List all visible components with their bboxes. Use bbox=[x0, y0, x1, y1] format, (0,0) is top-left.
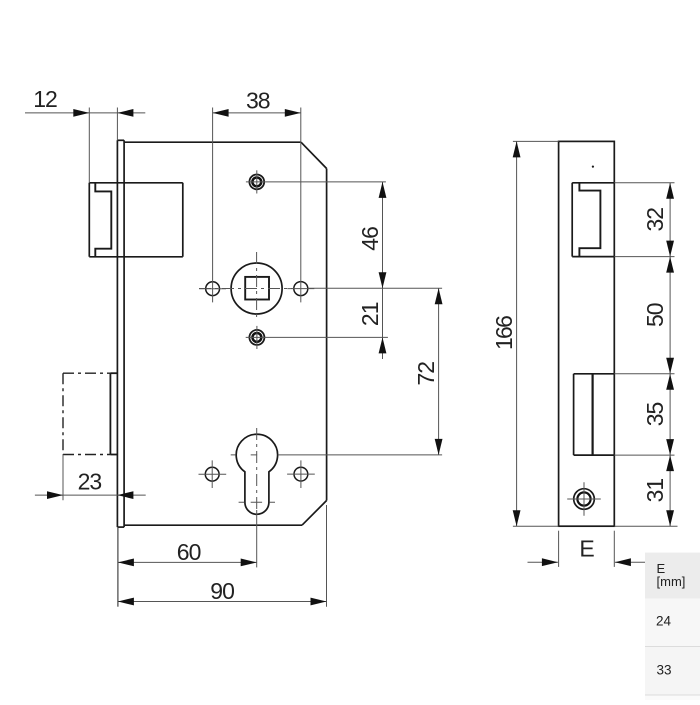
case top edge bbox=[124, 141, 301, 143]
faceplate outline bbox=[559, 141, 615, 526]
dimension 166 extension top bbox=[513, 140, 559, 142]
lower screw hole outer bbox=[249, 330, 264, 345]
dimension 23 line bbox=[35, 494, 146, 496]
dimension E arrow left bbox=[542, 558, 558, 566]
dimension 31 arrow top bbox=[666, 455, 674, 471]
dimension 50 arrow bottom bbox=[666, 358, 674, 374]
lower screw hole centerline vertical bbox=[256, 326, 258, 349]
deadbolt cutout bottom bbox=[574, 454, 615, 456]
latch bolt bracket bbox=[95, 183, 111, 257]
svg-text:46: 46 bbox=[357, 227, 383, 251]
latch block right edge bbox=[182, 183, 184, 257]
dimension 38 extension left bbox=[212, 108, 214, 303]
top screw hole inner bbox=[252, 177, 261, 186]
table row border 2 bbox=[645, 694, 700, 696]
dimension 72 line bbox=[438, 288, 440, 455]
deadbolt cutout left bbox=[573, 374, 575, 455]
deadbolt face retracted bbox=[109, 373, 111, 454]
dimension 46 arrow top bbox=[379, 182, 387, 198]
dimension 12 extension left bbox=[88, 108, 90, 183]
table row 24 bbox=[645, 599, 700, 647]
svg-text:E: E bbox=[579, 536, 594, 562]
case bottom-right chamfer bbox=[302, 501, 327, 526]
lower screw hole centerline horizontal / extension to 21 dim bbox=[246, 336, 388, 338]
cylinder left fixing hole cross bbox=[199, 460, 227, 488]
dimension 90 extension right bbox=[326, 505, 328, 607]
dimension 60 arrow right bbox=[241, 559, 257, 567]
cylinder left fixing hole bbox=[205, 467, 219, 481]
dimension 32/50/35/31 line bbox=[669, 183, 671, 526]
dimension 31 arrow bottom bbox=[666, 510, 674, 526]
dimension 50 arrow top bbox=[666, 257, 674, 273]
faceplate side view front edge bbox=[116, 140, 118, 527]
svg-text:[mm]: [mm] bbox=[657, 574, 686, 589]
case bottom edge bbox=[124, 524, 302, 526]
dimension 60 arrow left bbox=[118, 559, 134, 567]
svg-text:31: 31 bbox=[642, 479, 668, 503]
hub left hole bbox=[206, 282, 220, 296]
case right edge bbox=[326, 169, 328, 501]
svg-text:24: 24 bbox=[656, 614, 672, 629]
svg-text:38: 38 bbox=[246, 88, 270, 114]
svg-text:166: 166 bbox=[491, 316, 517, 350]
dimension 38 extension right bbox=[300, 108, 302, 303]
dimension 72 arrow bottom bbox=[435, 439, 443, 455]
dimension 90 arrow left bbox=[118, 598, 134, 606]
dimension 35 arrow bottom bbox=[666, 439, 674, 455]
cylinder centerline left dash bbox=[231, 454, 257, 456]
svg-text:90: 90 bbox=[210, 578, 234, 604]
dimension 23 extension left bbox=[62, 455, 64, 501]
faceplate screw hole cross bbox=[567, 482, 601, 516]
deadbolt bottom solid stub bbox=[110, 454, 117, 456]
cylinder centerline vertical dashdot bbox=[256, 428, 258, 510]
faceplate screw hole outer bbox=[574, 489, 595, 510]
dimension 38 arrow right bbox=[285, 109, 301, 117]
hub centerline vertical bbox=[256, 252, 258, 321]
faceplate latch bracket bbox=[579, 183, 600, 257]
dimension 46/21 line bbox=[382, 182, 384, 359]
dimension 12 arrow right bbox=[117, 109, 133, 117]
dimension E extension right bbox=[613, 531, 615, 567]
top screw hole centerline horizontal / extension to 46 dim bbox=[246, 181, 386, 183]
dimension 23 arrow left bbox=[47, 491, 63, 499]
latch cutout left bbox=[571, 183, 573, 257]
dimension 90 arrow right bbox=[311, 598, 327, 606]
deadbolt extended phantom top bbox=[63, 372, 110, 374]
dimension 60 line bbox=[118, 561, 257, 563]
faceplate screw hole inner bbox=[577, 492, 590, 505]
table header cell bbox=[645, 553, 700, 599]
dimension 32 arrow top bbox=[666, 183, 674, 199]
svg-text:12: 12 bbox=[33, 86, 57, 112]
latch housing top bbox=[89, 182, 183, 184]
hub right hole bbox=[294, 282, 308, 296]
faceplate deadbolt inner edge bbox=[591, 374, 593, 455]
latch housing bottom bbox=[89, 256, 183, 258]
lower screw hole inner bbox=[252, 333, 261, 342]
dimension 46 arrow bottom bbox=[379, 272, 387, 288]
faceplate small dot bbox=[592, 166, 594, 168]
table row 33 bbox=[645, 647, 700, 696]
hub centerline horizontal bbox=[199, 288, 293, 290]
hub right hole cross tick bbox=[287, 288, 314, 290]
dimension 23 arrow right bbox=[117, 491, 133, 499]
cylinder right fixing hole cross bbox=[287, 460, 315, 488]
latch cutout top bbox=[572, 182, 614, 184]
latch housing left bbox=[88, 183, 90, 257]
dimension 12 line bbox=[25, 112, 145, 114]
dimension 32 arrow bottom bbox=[666, 241, 674, 257]
hub circle bbox=[231, 263, 282, 314]
dimension E extension left bbox=[558, 531, 560, 567]
dimension 32/50/35/31 extensions bbox=[614, 183, 674, 455]
dimension 21 arrow bottom outside bbox=[379, 337, 387, 353]
dimension 72 arrow top bbox=[435, 288, 443, 304]
dimension 12 arrow left bbox=[73, 109, 89, 117]
svg-text:72: 72 bbox=[413, 362, 439, 386]
cylinder centerline vertical solid to 60 dim bbox=[256, 510, 258, 567]
svg-text:32: 32 bbox=[642, 208, 668, 232]
case top-right chamfer bbox=[301, 142, 327, 168]
top screw hole centerline vertical bbox=[256, 170, 258, 193]
hub left hole cross bbox=[199, 288, 226, 290]
hub centerline extension right bbox=[308, 287, 442, 289]
hub square spindle hole bbox=[245, 277, 269, 300]
dimension 90 extension left (faceplate) bbox=[117, 528, 119, 607]
top screw hole outer bbox=[249, 175, 264, 190]
deadbolt top solid stub bbox=[110, 372, 117, 374]
dimension E arrow right bbox=[615, 558, 631, 566]
svg-text:50: 50 bbox=[642, 303, 668, 327]
table row border 1 bbox=[645, 646, 700, 648]
cylinder keyhole profile bbox=[236, 434, 277, 514]
dimension 38 line bbox=[213, 112, 301, 114]
dimension 166 line bbox=[516, 141, 518, 526]
table row bottom partial bbox=[645, 695, 700, 700]
dimension 166 arrow top bbox=[513, 141, 521, 157]
svg-text:23: 23 bbox=[78, 468, 102, 494]
dimension 90 line bbox=[118, 601, 327, 603]
latch cutout bottom bbox=[572, 256, 614, 258]
faceplate side view back edge bbox=[123, 140, 125, 527]
dimension 166/31 extension bottom bbox=[513, 525, 678, 527]
dimension 166 arrow bottom bbox=[513, 510, 521, 526]
dimension E line left bbox=[528, 561, 558, 563]
dimension E line right bbox=[615, 561, 647, 563]
dimension 35 arrow top bbox=[666, 374, 674, 390]
dimension 38 arrow left bbox=[213, 109, 229, 117]
dimension 12 extension right bbox=[116, 108, 118, 141]
svg-text:35: 35 bbox=[642, 403, 668, 427]
cylinder bottom circle tick bbox=[239, 501, 275, 503]
cylinder right fixing hole bbox=[294, 467, 308, 481]
svg-text:33: 33 bbox=[657, 663, 672, 678]
faceplate bottom cap bbox=[117, 526, 124, 528]
svg-text:21: 21 bbox=[357, 302, 383, 326]
faceplate top cap bbox=[117, 139, 124, 141]
svg-text:60: 60 bbox=[177, 539, 201, 565]
cylinder centerline extension right to 72 dim bbox=[278, 454, 442, 456]
deadbolt cutout top bbox=[574, 373, 615, 375]
deadbolt extended phantom bottom bbox=[63, 454, 110, 456]
deadbolt extended phantom left bbox=[62, 373, 64, 454]
